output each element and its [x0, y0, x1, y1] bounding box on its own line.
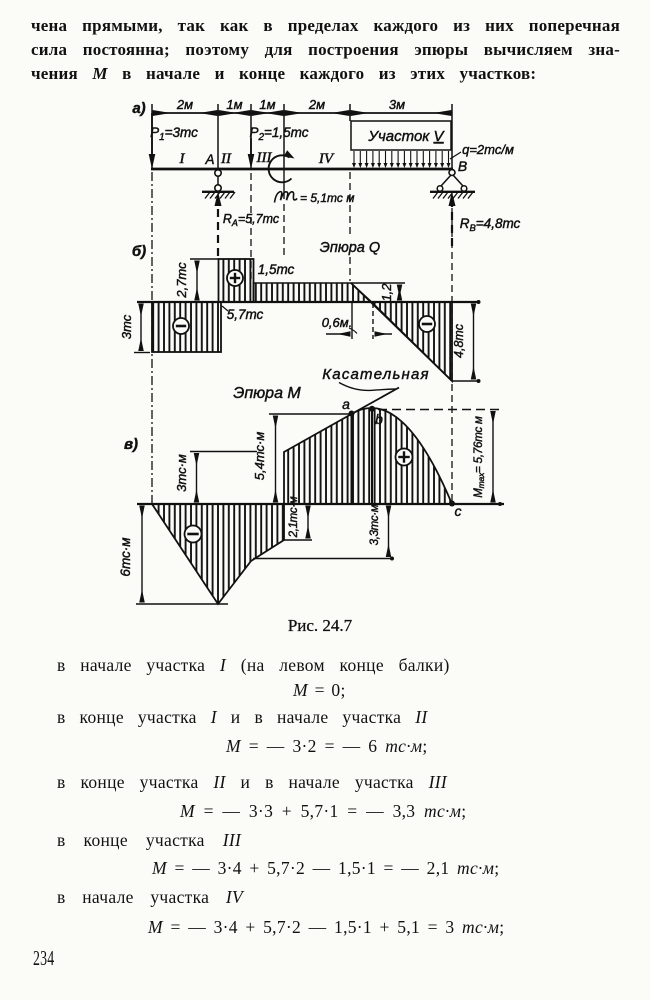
svg-text:5,7тс: 5,7тс — [227, 307, 264, 322]
2.1tcm dimension — [284, 539, 312, 541]
svg-text:б): б) — [132, 243, 146, 260]
reaction RB arrow — [451, 199, 453, 246]
svg-text:a: a — [342, 396, 350, 412]
svg-text:B: B — [458, 158, 467, 174]
svg-text:Участок V: Участок V — [367, 128, 445, 145]
svg-text:c: c — [455, 503, 462, 519]
svg-text:P2=1,5тс: P2=1,5тс — [249, 125, 308, 143]
Q positive rectangle — [219, 259, 254, 302]
svg-text:а): а) — [132, 100, 145, 117]
svg-text:1м: 1м — [226, 97, 242, 112]
svg-text:Касательная: Касательная — [322, 366, 430, 383]
support A — [215, 170, 221, 176]
svg-text:1,5тс: 1,5тс — [258, 262, 295, 277]
svg-text:1м: 1м — [259, 97, 275, 112]
svg-text:в): в) — [124, 436, 138, 453]
svg-text:IV: IV — [318, 151, 335, 167]
0.6m dimension — [351, 303, 353, 339]
4.8tc dimension — [452, 380, 480, 382]
svg-text:3м: 3м — [389, 97, 405, 112]
svg-text:I: I — [179, 151, 186, 167]
svg-text:A: A — [204, 152, 214, 167]
5.4tcm dimension — [269, 413, 351, 415]
script M of moment label — [275, 192, 298, 203]
svg-text:q=2тс/м: q=2тс/м — [462, 142, 514, 157]
2.7tc dimension — [190, 258, 218, 260]
force P1 arrow — [151, 113, 153, 158]
svg-text:3,3тс·м: 3,3тс·м — [369, 504, 381, 545]
plus/minus signs — [173, 270, 435, 543]
svg-text:Рис. 24.7: Рис. 24.7 — [288, 616, 353, 635]
svg-text:Мmax= 5,76тс м: Мmax= 5,76тс м — [473, 416, 486, 498]
emphasized verticals under a and b — [351, 414, 353, 503]
dimension line — [152, 112, 452, 114]
svg-text:4,8тс: 4,8тс — [452, 323, 466, 358]
M baseline — [137, 503, 504, 505]
svg-text:3тс·м: 3тс·м — [174, 454, 189, 492]
5.7tc leader — [222, 306, 228, 311]
Mmax dimension — [492, 412, 494, 503]
svg-text:5,4тс·м: 5,4тс·м — [252, 432, 267, 481]
dashed max level line — [378, 409, 499, 411]
distributed load arrows — [354, 151, 449, 165]
tangent callout — [339, 383, 396, 391]
q leader — [450, 152, 461, 159]
tangent line — [352, 388, 400, 415]
Q negative triangle — [372, 302, 453, 381]
svg-text:= 5,1тс м: = 5,1тс м — [300, 191, 354, 205]
svg-text:RA=5,7тс: RA=5,7тс — [223, 212, 280, 228]
6tcm dimension — [136, 603, 228, 605]
force P2 arrow — [250, 138, 252, 158]
Q baseline — [137, 301, 480, 303]
vertical dashed construction lines — [151, 172, 153, 503]
svg-text:6тс·м: 6тс·м — [118, 537, 133, 576]
M negative region — [152, 504, 284, 604]
svg-text:Эпюра Q: Эпюра Q — [320, 240, 380, 256]
svg-text:Эпюра М: Эпюра М — [233, 385, 301, 402]
svg-text:1,2: 1,2 — [379, 283, 394, 302]
svg-text:2м: 2м — [176, 97, 193, 112]
figure text labels — [118, 97, 521, 577]
beam — [151, 168, 453, 171]
3tcm dimension — [190, 451, 257, 453]
svg-text:b: b — [375, 411, 383, 427]
points a b c — [349, 411, 355, 417]
top paragraph — [31, 16, 620, 36]
section V box — [351, 121, 451, 150]
svg-text:2,7тс: 2,7тс — [174, 262, 189, 299]
svg-text:II: II — [220, 151, 232, 167]
moment symbol arc — [269, 155, 292, 182]
M positive region — [284, 408, 452, 504]
svg-text:2м: 2м — [308, 97, 325, 112]
support B — [449, 170, 455, 176]
svg-text:P1=3тс: P1=3тс — [150, 125, 198, 143]
3tc dimension — [134, 352, 150, 354]
dimension arrows — [154, 112, 216, 114]
svg-text:3тс: 3тс — [119, 314, 134, 339]
bottom equations — [57, 655, 450, 676]
svg-text:2,1тс·м: 2,1тс·м — [288, 496, 300, 538]
1.2 dimension — [351, 282, 405, 284]
page number — [33, 946, 54, 971]
Q band 1.2 — [254, 283, 372, 302]
reaction RA arrow — [217, 199, 219, 256]
dimension ticks — [151, 104, 153, 169]
Q negative rectangle — [152, 302, 221, 352]
svg-text:RB=4,8тс: RB=4,8тс — [460, 216, 521, 234]
svg-text:0,6м.: 0,6м. — [322, 315, 353, 330]
svg-text:III: III — [256, 150, 273, 166]
3.3tcm dimension — [253, 558, 393, 560]
